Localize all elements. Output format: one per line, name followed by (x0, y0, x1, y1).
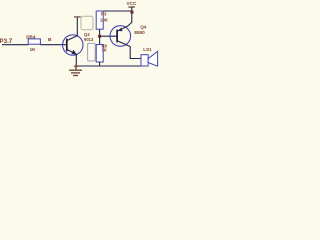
wire VCC rail to R3 top (100, 10, 132, 12)
svg-text:LS1: LS1 (143, 47, 152, 52)
svg-text:B: B (48, 37, 52, 43)
wire R8 bottom to ground rail (99, 62, 101, 66)
resistor R3 (96, 11, 103, 29)
resistor R4 (28, 39, 40, 44)
svg-text:8550: 8550 (134, 30, 145, 35)
ground symbol (69, 66, 82, 76)
transistor Q2 emitter (117, 12, 132, 31)
transistor Q2 emitter arrow (PNP) (118, 28, 123, 32)
background (0, 0, 162, 84)
ghost artifact box (81, 16, 93, 30)
svg-text:VCC: VCC (127, 1, 138, 6)
ground rail wire (76, 65, 141, 67)
transistor Q1 circle (63, 35, 83, 55)
junction at Q1 emitter / ground (red cross) (74, 64, 78, 68)
wire P3.7 to R4 (2, 44, 29, 46)
transistor Q1 emitter (67, 49, 77, 66)
resistor R8 (96, 45, 103, 63)
svg-text:9013: 9013 (84, 37, 94, 42)
speaker LS1 cone (148, 51, 158, 66)
wire R3 bottom to node (99, 29, 101, 36)
junction dot VCC node (131, 11, 134, 14)
transistor Q2 collector (117, 41, 141, 59)
VCC power bar (128, 6, 135, 8)
speaker LS1 body (141, 55, 148, 66)
svg-text:1K: 1K (102, 48, 107, 53)
junction dot base node (98, 35, 101, 38)
svg-text:10K: 10K (100, 18, 109, 23)
ghost artifact box R8 echo (88, 43, 96, 61)
wire node to R8 top (99, 36, 101, 44)
svg-text:1K: 1K (30, 47, 37, 52)
transistor Q1 collector (67, 17, 78, 41)
svg-text:DR4: DR4 (26, 35, 36, 40)
transistor Q1 base bar (66, 39, 68, 52)
VCC power bar above Q1 collector (74, 16, 81, 18)
wire R4 to Q1 base (40, 44, 66, 46)
transistor Q2 circle (110, 26, 131, 47)
transistor Q1 emitter arrow (71, 50, 76, 55)
svg-text:Q4: Q4 (140, 24, 146, 29)
wire node to Q2 base (100, 35, 118, 37)
svg-text:R3: R3 (101, 12, 107, 17)
wire VCC bar to junction (131, 7, 133, 12)
transistor Q2 base bar (116, 30, 118, 43)
